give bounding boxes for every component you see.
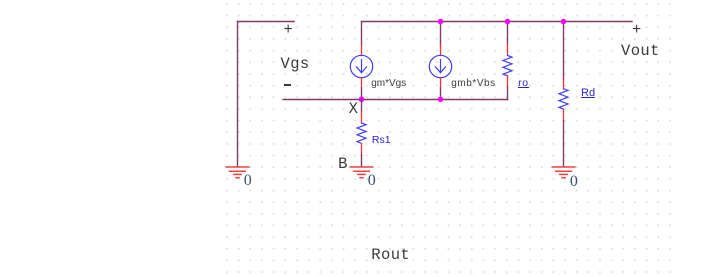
wire: Rs1 to ground B: [361, 155, 363, 166]
label 0 (right ground): [570, 174, 578, 190]
wire: I1 bottom lead: [361, 88, 363, 100]
wire: I2 bottom lead: [440, 88, 442, 100]
label node B: [338, 157, 348, 173]
label 0 (node B ground): [368, 173, 376, 189]
wire: I2 top lead: [440, 22, 442, 45]
junction dot top rail / Rd: [561, 19, 567, 25]
label ro: [518, 80, 529, 88]
pin: ro bottom pin: [507, 76, 509, 88]
junction dot top rail / I2: [438, 19, 444, 25]
wire: Rs1 top lead: [361, 100, 363, 112]
pin: Rs1 bottom pin: [361, 143, 363, 155]
wire: ro top lead: [507, 21, 509, 44]
dot grid background: [222, 0, 677, 277]
label - (Vgs minus): [284, 84, 291, 86]
label gmb*Vbs: [451, 79, 495, 89]
pin: I2 bottom pin: [440, 78, 442, 88]
label Vout: [621, 44, 660, 60]
label 0 (left ground): [244, 173, 252, 189]
ground 0 (node B): [350, 167, 373, 178]
label node X: [349, 102, 359, 118]
resistor ro: [503, 56, 512, 76]
wire: Rd top lead: [563, 22, 565, 80]
pin: Rd top pin: [563, 79, 565, 89]
pin: Rs1 top pin: [361, 112, 363, 124]
wire: top-left stub: [238, 21, 295, 23]
wire: Rd to ground: [563, 121, 565, 167]
label Rd: [581, 89, 595, 98]
label Rout: [371, 248, 410, 264]
label gm*Vgs: [371, 79, 406, 89]
pin: Rd bottom pin: [563, 109, 565, 120]
resistor Rs1: [357, 123, 366, 143]
label + (Vout plus): [632, 23, 642, 39]
junction dot top rail / ro: [505, 19, 511, 25]
wire: ro bottom lead to mid rail: [507, 88, 509, 100]
junction dot mid rail / I2: [438, 97, 444, 103]
current source G2 gmb*Vbs: [429, 55, 451, 77]
ground 0 (right): [552, 167, 575, 178]
junction node X dot: [359, 97, 365, 103]
pin: I2 top pin: [440, 45, 442, 56]
label Vgs: [281, 57, 310, 73]
label + (Vgs plus): [284, 23, 294, 39]
pin: I1 bottom pin: [361, 78, 363, 88]
ground 0 (left): [226, 167, 249, 178]
wire: left vertical (Vgs negative rail): [237, 22, 239, 167]
pin: I1 top pin: [361, 45, 363, 56]
wire: top rail: [362, 21, 633, 23]
wire: mid rail (node X): [283, 99, 508, 101]
current source G1 gm*Vgs: [350, 55, 372, 77]
resistor Rd: [559, 89, 568, 109]
wire: I1 top lead: [361, 22, 363, 45]
pin: ro top pin: [507, 44, 509, 56]
label Rs1: [372, 135, 391, 146]
